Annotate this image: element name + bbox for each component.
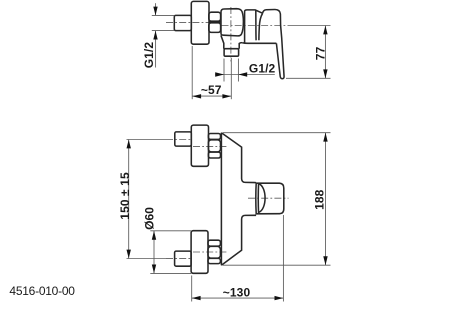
arrowhead right-pointing at outlet left edge (215, 72, 224, 76)
knob rim (cap back plate) (256, 183, 284, 214)
centerline: bottom wall pipe axis + 150 bottom extension (127, 258, 167, 260)
handle cap (escutcheon), top view (245, 10, 263, 43)
outlet neck right edge (239, 43, 242, 49)
hex nut, top view (upper facet) (209, 12, 221, 21)
hex nut, top view (lower facet) (209, 23, 221, 33)
wall pipe top, bottom view (175, 132, 192, 146)
arrowhead up (150) (127, 140, 131, 149)
hex nut bottom: lower facet (208, 258, 220, 263)
hex nut, top view (mid band) (209, 21, 221, 23)
svg-text:Ø60: Ø60 (142, 207, 156, 230)
handle cap right edge (255, 10, 257, 40)
dim G1/2 outlet: dimension line with tail (215, 74, 274, 76)
hex nut bottom: upper facet (208, 240, 220, 246)
dim Ø60: top extension (150, 230, 191, 232)
dim G1/2 left: lower dimension line (155, 31, 157, 68)
dim G1/2 outlet: right extension (237, 59, 239, 82)
arrowhead down (Ø60) (152, 265, 156, 274)
outlet nut (G1/2 shower outlet) (224, 49, 239, 57)
wall pipe bottom, bottom view (175, 251, 192, 266)
mixer body right outline upper, bottom view (221, 133, 256, 183)
centerline: outlet vertical axis (230, 7, 232, 62)
svg-text:150 ± 15: 150 ± 15 (118, 172, 132, 220)
lever inner edge (259, 13, 263, 40)
dim 77: bottom extension (286, 77, 331, 79)
dim 188: top extension (223, 132, 331, 134)
dim G1/2 left: upper dimension line (155, 3, 157, 15)
dim ~57: right extension (outlet axis) (230, 58, 232, 99)
dim 188: bottom extension (223, 264, 331, 266)
lever blade, top view (263, 9, 284, 78)
mixer body right outline lower, bottom view (221, 215, 256, 265)
outlet neck chamfer left (221, 35, 224, 48)
knob rim inner line (257, 183, 259, 214)
hex nut top: middle facet (208, 140, 220, 152)
arrowhead left-pointing at outlet right edge (238, 72, 247, 76)
centerline: bottom mixer inlet axis (193, 251, 229, 253)
svg-text:~57: ~57 (201, 83, 222, 97)
handle cap / lever bottom line (242, 42, 276, 45)
hex nut bottom: middle facet (208, 246, 220, 258)
svg-text:~130: ~130 (223, 286, 251, 300)
arrowhead up (77) (323, 26, 327, 35)
knob axis centerline (248, 197, 289, 199)
wire: 77-dim top extension line (293, 25, 331, 27)
knob cone profile (259, 184, 265, 213)
arrowhead up at pipe bottom (153, 31, 157, 40)
arrowhead up (188) (323, 133, 327, 142)
svg-text:G1/2: G1/2 (249, 62, 276, 76)
svg-text:188: 188 (312, 189, 326, 210)
centerline: top wall pipe axis dash-dot (166, 139, 192, 141)
dim G1/2 left: top extension (152, 14, 175, 16)
centerline: top wall pipe axis + 150 top extension (127, 139, 167, 141)
arrowhead left (~130) (192, 296, 201, 300)
dim G1/2 left: bottom extension (152, 30, 175, 32)
arrowhead up (Ø60) (152, 231, 156, 240)
wall flange top, bottom view (191, 125, 208, 166)
dim G1/2 outlet: left extension (223, 59, 225, 82)
dim 150±15: dimension line (128, 140, 130, 259)
arrowhead right (~130) (275, 296, 284, 300)
arrowhead down (77) (323, 69, 327, 78)
hex nut top: lower facet (208, 152, 220, 158)
wall flange bottom, bottom view (191, 231, 208, 274)
svg-text:77: 77 (313, 46, 327, 60)
dim ~57: left extension (wall face) (191, 46, 193, 99)
dim Ø60: dimension line (153, 231, 155, 274)
valve body, top view (221, 9, 243, 36)
wall flange, top view (191, 1, 209, 44)
arrowhead down (188) (323, 256, 327, 265)
mixer body left edge, bottom view (220, 133, 222, 266)
hex nut top: upper facet (208, 134, 220, 140)
svg-text:G1/2: G1/2 (142, 42, 156, 69)
centerline: inlet pipe axis (166, 22, 209, 24)
centerline: body axis (also 77-dim top extension) (222, 25, 294, 27)
arrowhead right (~57) (222, 94, 231, 98)
arrowhead down at pipe top (153, 7, 157, 16)
centerline: bottom wall pipe axis dash-dot (166, 258, 191, 260)
arrowhead down (150) (127, 250, 131, 259)
dim ~130: right extension (282, 215, 284, 302)
dim 77: dimension line (324, 26, 326, 79)
dim 188: dimension line (325, 133, 327, 266)
dim Ø60: bottom extension (150, 272, 191, 274)
wall pipe (threaded inlet), top view (174, 15, 191, 30)
centerline: top mixer inlet axis (193, 145, 229, 147)
arrowhead left (~57) (192, 94, 201, 98)
dim ~57: dimension line (192, 95, 231, 97)
dim ~130: left extension (191, 276, 193, 302)
dim ~130: dimension line (192, 297, 284, 299)
svg-text:4516-010-00: 4516-010-00 (9, 284, 75, 298)
